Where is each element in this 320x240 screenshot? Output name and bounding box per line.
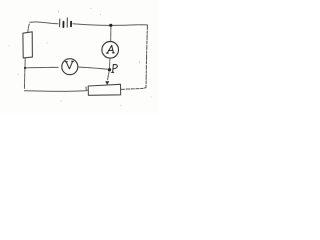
- battery B1 long plate: [59, 19, 61, 27]
- scan speckles (noise): [9, 8, 152, 106]
- resistor R body (left rectangle): [23, 32, 33, 58]
- wire left lead of rheostat: [86, 87, 88, 91]
- wire right lead of rheostat (dashed): [121, 88, 143, 89]
- rheostat RH body: [88, 84, 121, 95]
- node P label: [112, 64, 118, 72]
- battery B1 short plate: [70, 22, 72, 27]
- wire voltmeter to node P: [78, 67, 108, 69]
- wire junction down to ammeter A: [110, 27, 112, 42]
- wire bottom from left rail to rheostat: [24, 90, 86, 93]
- wire top from resistor R to battery: [30, 22, 58, 24]
- wire ammeter bottom to node P: [109, 58, 111, 68]
- wire V-junction to voltmeter V: [26, 66, 62, 68]
- wire V-junction down to bottom-left corner: [23, 69, 26, 91]
- wire resistor R bottom to node V-junction: [24, 58, 26, 67]
- label V of voltmeter: [65, 61, 73, 68]
- node junction top (to ammeter): [109, 24, 112, 27]
- ammeter A circle: [102, 42, 119, 59]
- battery B1 long plate: [66, 18, 68, 27]
- wire node P down to rheostat wiper arrow: [107, 71, 109, 81]
- rheostat wiper arrowhead: [105, 81, 109, 85]
- node V-junction dot: [24, 67, 26, 69]
- wire resistor R top lead: [28, 23, 30, 32]
- wire right rail (sketchy dotted): [143, 26, 147, 89]
- label A of ammeter: [106, 45, 114, 53]
- node P junction dot: [108, 68, 111, 71]
- battery B1 short plate: [62, 22, 64, 28]
- wire battery to right rail: [73, 24, 148, 26]
- voltmeter V circle: [62, 59, 78, 75]
